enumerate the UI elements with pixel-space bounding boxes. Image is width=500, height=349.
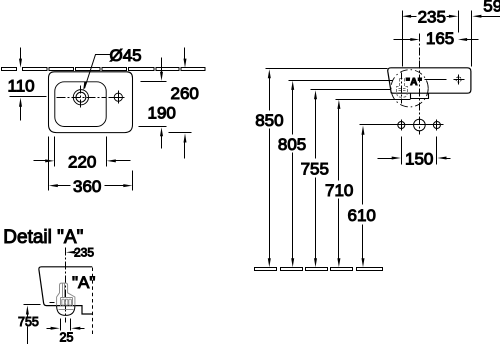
svg-text:25: 25 — [60, 331, 74, 345]
basin side profile — [388, 68, 471, 93]
dim 755 — [311, 90, 391, 268]
tap hole outer circle — [73, 90, 88, 105]
dim 165 — [394, 34, 479, 61]
detail dim 25 — [47, 319, 85, 331]
detail siphon dome — [57, 306, 75, 316]
tap hole horizontal centerline — [57, 97, 107, 99]
centerline dash right of bowl — [109, 97, 117, 99]
tap hole vertical centerline — [80, 86, 82, 110]
right fixing hole front view — [114, 93, 122, 101]
middle axis dash-dot line — [419, 61, 421, 135]
dim 710 — [336, 100, 411, 268]
tap centerline stub (side view) — [425, 79, 447, 81]
dim 235 (top) — [402, 11, 459, 67]
fixing hole left — [398, 122, 405, 129]
detail center dash-dot line — [65, 248, 67, 323]
Ø45 leader line — [85, 55, 111, 89]
svg-text:Detail "A": Detail "A" — [3, 227, 83, 248]
detail right dashed line — [92, 268, 94, 335]
dim 150 — [378, 137, 451, 165]
svg-text:165: 165 — [426, 29, 454, 48]
svg-text:755: 755 — [18, 315, 39, 329]
floor hatch — [255, 268, 383, 271]
svg-text:235: 235 — [418, 7, 446, 26]
dim 190 — [139, 58, 167, 149]
svg-text:360: 360 — [73, 177, 101, 196]
detail circle A — [391, 70, 428, 107]
dim 805 — [289, 81, 393, 268]
svg-text:190: 190 — [148, 103, 176, 122]
fixing holes centerline (610 ref) — [360, 124, 444, 126]
svg-text:235: 235 — [74, 246, 94, 260]
dim 610 — [362, 126, 365, 268]
svg-text:805: 805 — [278, 135, 306, 154]
tap hole cross (side view) — [454, 75, 465, 85]
siphon centerline — [401, 73, 403, 104]
dim 220 — [34, 137, 131, 167]
tap hole inner circle — [76, 92, 86, 102]
svg-text:755: 755 — [301, 160, 329, 179]
svg-text:110: 110 — [8, 76, 35, 95]
drain step below profile — [411, 94, 429, 99]
svg-text:610: 610 — [348, 206, 376, 225]
Ø45 leader arrowhead — [83, 82, 87, 91]
dim 59 (top right) — [472, 11, 500, 67]
detail section outline — [39, 267, 92, 314]
right hole vertical centerline — [118, 91, 120, 104]
inner bowl front view — [55, 82, 106, 127]
detail dim 235 — [66, 251, 77, 254]
svg-text:220: 220 — [68, 152, 96, 171]
svg-text:260: 260 — [171, 84, 199, 103]
dim 110 — [10, 48, 47, 121]
detail siphon — [57, 283, 75, 309]
detail dim 755 — [24, 305, 41, 345]
svg-text:Ø45: Ø45 — [110, 46, 142, 65]
wall hatch line (front view) — [2, 68, 206, 71]
svg-text:"A": "A" — [72, 273, 95, 292]
dim 850 — [266, 69, 388, 268]
svg-text:710: 710 — [325, 181, 353, 200]
right hole horizontal centerline — [113, 97, 125, 99]
siphon hidden outline (side view) — [397, 79, 408, 98]
dim 260 — [169, 48, 192, 159]
basin outline front (top) view — [49, 72, 133, 133]
svg-text:850: 850 — [255, 111, 283, 130]
detail small tick — [50, 302, 55, 304]
svg-text:150: 150 — [405, 149, 433, 168]
svg-text:59: 59 — [483, 0, 500, 16]
fixing hole right — [433, 122, 440, 129]
fixing hole middle — [414, 119, 426, 131]
dim 360 — [49, 137, 133, 191]
